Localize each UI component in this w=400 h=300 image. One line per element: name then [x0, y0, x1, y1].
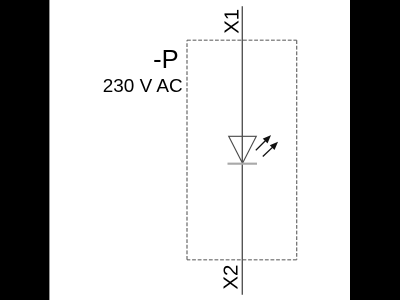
- svg-text:X2: X2: [221, 265, 243, 290]
- svg-text:-P: -P: [153, 46, 179, 74]
- svg-text:X1: X1: [221, 9, 243, 34]
- svg-text:230 V AC: 230 V AC: [103, 76, 183, 97]
